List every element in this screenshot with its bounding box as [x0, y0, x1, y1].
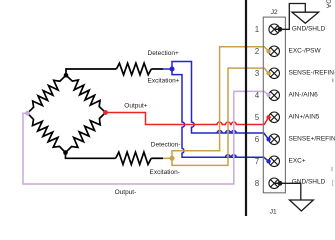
- wire Output+ red from bridge right node to pin5: [106, 113, 269, 125]
- svg-text:Excitation+: Excitation+: [148, 78, 180, 85]
- node bridge bottom: [63, 150, 68, 155]
- svg-text:SENSE+/REFIN+: SENSE+/REFIN+: [289, 136, 335, 143]
- contact dot pin4: [266, 93, 270, 97]
- junction tan Detection-/Excitation-: [170, 156, 175, 161]
- svg-text:3: 3: [255, 69, 260, 78]
- terminal pin 4 circle-X: [269, 90, 280, 101]
- resistor R4 bridge right-bottom arm: [66, 113, 106, 153]
- svg-text:1: 1: [255, 25, 260, 34]
- wire pin8 to chassis ground: [274, 183, 301, 200]
- resistor R6 bottom series: [116, 152, 152, 164]
- svg-text:AIN+/AIN5: AIN+/AIN5: [289, 114, 320, 121]
- contact dot pin7: [266, 159, 270, 163]
- resistor R3 bridge left-bottom arm: [28, 113, 66, 152]
- svg-text:7: 7: [255, 157, 260, 166]
- terminal pin 5 circle-X: [269, 112, 280, 123]
- svg-text:Detection+: Detection+: [148, 50, 179, 57]
- svg-text:AIN-/AIN6: AIN-/AIN6: [289, 92, 319, 99]
- wire bottom resistor to tan junction (black part): [151, 157, 163, 159]
- wire Excitation+ blue: down, right, down to pin7: [172, 69, 269, 161]
- contact dot pin5: [266, 115, 270, 119]
- wire Excitation- tan: down, right, up to pin3: [172, 68, 269, 165]
- pin numbers: [255, 25, 260, 188]
- hop bumps on blue pin6 line over tan and violet verticals: [217, 131, 236, 134]
- wire Detection- tan: up, right, up to pin2: [172, 47, 269, 159]
- contact dot pin3: [266, 71, 270, 75]
- terminal pin 3 circle-X: [269, 68, 280, 79]
- svg-text:J2: J2: [271, 9, 278, 16]
- wire pin1 to chassis ground: [274, 4, 305, 30]
- wire bridge top node to top resistor: [66, 69, 116, 75]
- svg-text:Output+: Output+: [124, 102, 148, 109]
- svg-text:2: 2: [255, 47, 260, 56]
- svg-text:Detection-: Detection-: [151, 142, 181, 149]
- ground chassis top (triangle): [292, 12, 319, 23]
- pin labels: [289, 26, 335, 186]
- ground chassis bottom (triangle): [290, 200, 314, 211]
- svg-text:SENSE-/REFIN-: SENSE-/REFIN-: [289, 70, 335, 77]
- hop bumps on blue pin7 line over tan2 and violet verticals: [226, 155, 237, 158]
- wire Output- violet from bridge left node to pin4: [23, 91, 269, 184]
- svg-text:Output-: Output-: [115, 189, 137, 196]
- terminal pins: [269, 24, 280, 189]
- wire top resistor to blue junction (black part): [151, 68, 163, 70]
- svg-text:8: 8: [255, 179, 260, 188]
- svg-text:[: [: [332, 180, 334, 186]
- svg-text:5: 5: [255, 113, 260, 122]
- contact dot pin8: [278, 181, 283, 186]
- enclosure border vertical line: [245, 0, 247, 216]
- contact dot pin2: [266, 49, 270, 53]
- svg-text:EXC+: EXC+: [289, 158, 306, 165]
- wire Detection+ blue: up, right, down to pin6: [172, 62, 269, 140]
- resistor R5 top series: [116, 63, 151, 75]
- terminal pin 6 circle-X: [269, 134, 280, 145]
- terminal pin 2 circle-X: [269, 46, 280, 57]
- svg-text:EXC-/PSW: EXC-/PSW: [289, 48, 322, 55]
- svg-text:6: 6: [255, 135, 260, 144]
- node bridge left (violet dot): [25, 111, 30, 116]
- junction blue Detection+/Excitation+: [170, 67, 175, 72]
- svg-text:Excitation-: Excitation-: [150, 169, 180, 176]
- node bridge top: [64, 73, 69, 78]
- cut-off mark right edge mid: [331, 167, 332, 172]
- svg-text:J1: J1: [270, 209, 277, 216]
- terminal pin 7 circle-X: [269, 156, 280, 167]
- resistor R2 bridge top-right arm: [66, 75, 106, 112]
- terminal pin 8 circle-X: [269, 178, 280, 189]
- svg-text:4: 4: [255, 91, 260, 100]
- wire blue junction stub: [163, 68, 172, 70]
- terminal block J2 box: [263, 17, 285, 193]
- wire tan junction stub: [163, 157, 172, 159]
- resistor R1 bridge top-left arm: [28, 75, 67, 113]
- cut-off mark right edge pin3 row: [332, 79, 333, 83]
- contact dot pin1: [278, 27, 283, 32]
- wire bridge bottom node to bottom resistor: [66, 153, 116, 159]
- svg-text:DA: DA: [325, 0, 332, 9]
- svg-text:GND/SHLD: GND/SHLD: [292, 178, 326, 185]
- terminal pin 1 circle-X: [269, 24, 280, 35]
- contact dot pin6: [266, 137, 270, 141]
- svg-text:GND/SHLD: GND/SHLD: [292, 26, 326, 33]
- node bridge right (red dot): [103, 110, 108, 115]
